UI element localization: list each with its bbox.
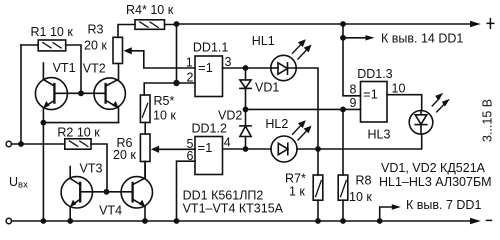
svg-text:4: 4 xyxy=(224,135,231,149)
svg-text:=1: =1 xyxy=(363,86,378,101)
svg-text:3: 3 xyxy=(225,55,232,69)
svg-text:R8: R8 xyxy=(356,174,372,188)
svg-text:VD1, VD2 КД521А: VD1, VD2 КД521А xyxy=(381,161,486,175)
svg-text:DD1.3: DD1.3 xyxy=(357,67,392,81)
svg-text:DD1.2: DD1.2 xyxy=(192,122,227,136)
svg-text:3...15 В: 3...15 В xyxy=(481,99,495,142)
svg-text:HL1: HL1 xyxy=(252,34,275,48)
svg-text:20 к: 20 к xyxy=(113,148,136,162)
svg-text:К выв. 14 DD1: К выв. 14 DD1 xyxy=(381,31,463,45)
svg-text:2: 2 xyxy=(187,70,194,84)
svg-text:R4* 10 к: R4* 10 к xyxy=(126,3,174,17)
svg-text:8: 8 xyxy=(350,83,357,97)
svg-text:1: 1 xyxy=(186,55,193,69)
svg-text:6: 6 xyxy=(187,149,194,163)
svg-text:VT2: VT2 xyxy=(83,62,106,76)
svg-text:DD1 К561ЛП2: DD1 К561ЛП2 xyxy=(183,188,264,202)
svg-text:VD1: VD1 xyxy=(255,81,279,95)
svg-text:DD1.1: DD1.1 xyxy=(193,40,228,54)
svg-text:=1: =1 xyxy=(198,140,213,155)
svg-text:Uвх: Uвх xyxy=(9,175,28,191)
svg-text:VT4: VT4 xyxy=(99,204,122,218)
svg-text:=1: =1 xyxy=(198,60,213,75)
svg-text:R3: R3 xyxy=(88,23,104,37)
svg-text:VT1–VT4 КТ315А: VT1–VT4 КТ315А xyxy=(183,201,284,215)
svg-text:VD2: VD2 xyxy=(218,108,242,122)
svg-text:HL1–HL3 АЛ307БМ: HL1–HL3 АЛ307БМ xyxy=(379,175,492,189)
svg-text:20 к: 20 к xyxy=(84,39,107,53)
svg-text:HL3: HL3 xyxy=(368,127,391,141)
svg-text:R7*: R7* xyxy=(285,172,306,186)
svg-text:10 к: 10 к xyxy=(349,190,372,204)
svg-text:R5*: R5* xyxy=(154,94,175,108)
svg-text:10 к: 10 к xyxy=(153,109,176,123)
svg-text:К выв. 7 DD1: К выв. 7 DD1 xyxy=(406,198,481,212)
svg-text:R2 10 к: R2 10 к xyxy=(57,126,100,140)
svg-text:VT3: VT3 xyxy=(80,161,103,175)
svg-text:9: 9 xyxy=(350,96,357,110)
svg-text:R1 10 к: R1 10 к xyxy=(31,25,74,39)
svg-text:10: 10 xyxy=(392,81,406,95)
svg-text:HL2: HL2 xyxy=(265,117,288,131)
svg-text:1 к: 1 к xyxy=(289,185,305,199)
svg-text:VT1: VT1 xyxy=(53,61,76,75)
